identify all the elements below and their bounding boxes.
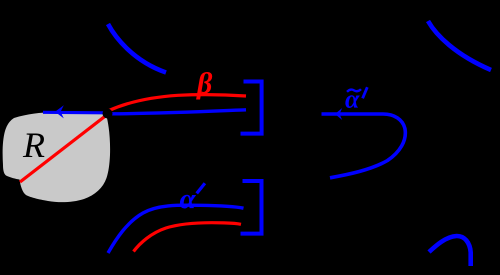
arrowhead on hook bbox=[335, 108, 342, 120]
arrowhead on blue segment bbox=[55, 105, 64, 118]
svg-text:α: α bbox=[180, 183, 197, 215]
svg-text:β: β bbox=[196, 67, 213, 100]
svg-text:R: R bbox=[22, 125, 45, 165]
arc top-right bbox=[428, 21, 491, 70]
curve alpha' red strand bbox=[134, 223, 242, 252]
red chord through R bbox=[20, 116, 106, 183]
top bracket bbox=[241, 82, 262, 134]
curve alpha' blue strand bbox=[108, 205, 244, 253]
region R (gray blob) bbox=[3, 112, 110, 202]
arc top-left bbox=[108, 24, 166, 73]
wire: blue line dot to bracket bbox=[111, 110, 246, 114]
arc bottom-right bbox=[429, 236, 471, 266]
curve beta (red) bbox=[109, 95, 246, 111]
bottom bracket bbox=[241, 181, 262, 234]
curve alpha-tilde' hook bbox=[322, 114, 406, 178]
wire: blue segment left of dot bbox=[43, 111, 104, 115]
vertex dot bbox=[103, 109, 113, 119]
